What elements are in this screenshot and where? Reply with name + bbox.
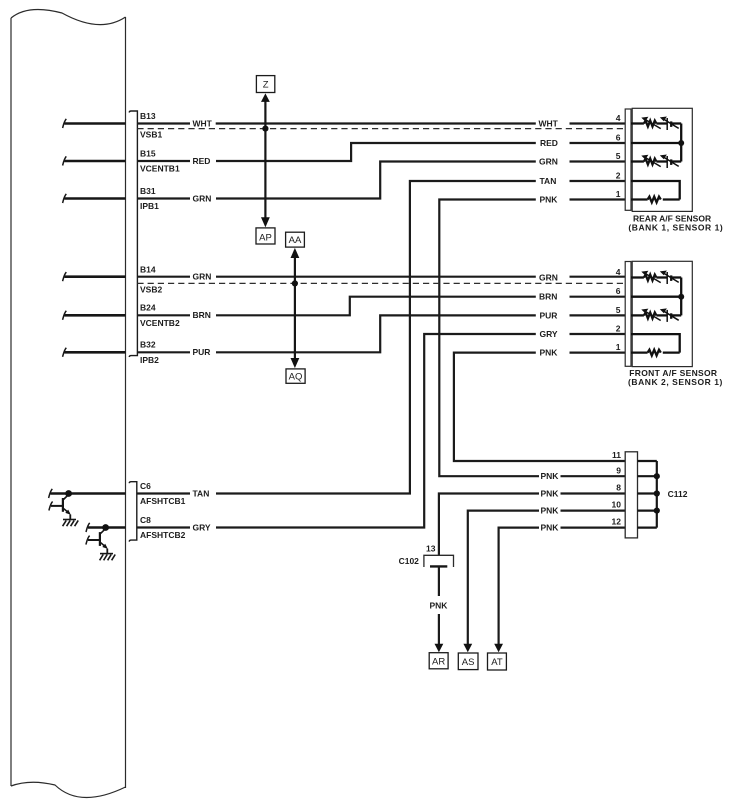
wire PNK (C112 pin 10 to AS) (468, 511, 625, 646)
svg-text:5: 5 (616, 305, 621, 315)
sensor 1 heater (631, 181, 680, 202)
stub B24 (65, 314, 126, 317)
svg-text:(BANK 1, SENSOR 1): (BANK 1, SENSOR 1) (628, 222, 723, 232)
svg-text:2: 2 (616, 324, 621, 334)
svg-text:TAN: TAN (193, 488, 210, 498)
svg-text:12: 12 (612, 517, 622, 527)
stub B31 (65, 197, 126, 200)
connector box AS (458, 653, 478, 670)
connector box AT (488, 653, 507, 670)
sensor 1 element pin 4 (631, 117, 681, 131)
sensor 1 pin numbers (616, 113, 621, 199)
sensor 2 element pin 5 (631, 308, 681, 322)
svg-text:(BANK 2, SENSOR 1): (BANK 2, SENSOR 1) (628, 377, 723, 387)
sensor 2 pin 6 wire (631, 296, 681, 298)
svg-text:AS: AS (462, 657, 475, 668)
sensor 2 internal junction dot (678, 294, 684, 300)
svg-text:B31: B31 (140, 186, 156, 196)
Q1 emitter arrowhead (65, 510, 71, 515)
arrowhead into AS (463, 644, 472, 653)
PNK labels at C112 (541, 471, 560, 532)
svg-text:PNK: PNK (430, 600, 449, 610)
svg-text:GRY: GRY (540, 329, 558, 339)
svg-text:AFSHTCB1: AFSHTCB1 (140, 496, 186, 506)
Q1 collector junction dot (65, 490, 72, 497)
svg-text:8: 8 (616, 483, 621, 493)
svg-text:B14: B14 (140, 265, 156, 275)
stub C8 (88, 526, 126, 529)
stub end ticks (49, 119, 90, 532)
svg-text:2: 2 (616, 171, 621, 181)
sensor 2 element bus (680, 278, 682, 316)
svg-text:PUR: PUR (193, 347, 211, 357)
svg-text:VCENTB1: VCENTB1 (140, 164, 180, 174)
Q2 emitter arrowhead (102, 544, 108, 549)
sensor 1 pin 6 wire (631, 142, 681, 144)
wire GRN (B14 VSB2 to sensor 2 pin 4) (137, 276, 625, 278)
svg-text:PNK: PNK (541, 471, 560, 481)
wire PNK (C112 pin 12 to AT) (499, 528, 626, 646)
Q2 collector junction dot (102, 524, 109, 531)
wire PNK (C112 pin 11 to sensor 2 pin 1) (454, 353, 625, 461)
svg-text:PUR: PUR (540, 310, 558, 320)
svg-text:VSB1: VSB1 (140, 130, 162, 140)
sensor 1 internal junction dot (678, 140, 684, 146)
wire WHT (B13 VSB1 to sensor pin 4) (137, 122, 625, 124)
svg-text:10: 10 (612, 500, 622, 510)
svg-text:IPB2: IPB2 (140, 355, 159, 365)
C112 pin numbers (612, 450, 622, 527)
svg-text:5: 5 (616, 151, 621, 161)
sensor U2 FRONT A/F SENSOR box (632, 261, 692, 366)
wire PNK (C102 to AR) (438, 566, 440, 645)
svg-text:B13: B13 (140, 111, 156, 121)
svg-text:RED: RED (540, 138, 558, 148)
wire PUR (B32 IPB2 to sensor 2 pin 5) (137, 315, 625, 352)
connector box AR (429, 653, 448, 669)
svg-text:C8: C8 (140, 515, 151, 525)
wire GRN (B31 IPB1 to sensor pin 5) (137, 162, 625, 199)
C112 joined splice bus (638, 461, 657, 528)
svg-text:1: 1 (616, 342, 621, 352)
connector box Z (256, 76, 274, 93)
stub C6 (51, 492, 126, 495)
junction dot on VSB2 shield (292, 280, 298, 286)
FRONT A/F sensor connector strip (625, 262, 631, 367)
svg-text:GRN: GRN (539, 272, 558, 282)
connector C112 body (625, 452, 637, 538)
sensor U1 REAR A/F SENSOR box (632, 108, 692, 211)
svg-text:GRN: GRN (193, 193, 212, 203)
svg-text:WHT: WHT (193, 118, 213, 128)
sensor 2 pin numbers (616, 267, 621, 352)
svg-text:AA: AA (289, 235, 302, 246)
svg-text:AT: AT (491, 657, 503, 668)
svg-text:AP: AP (259, 233, 272, 244)
wire RED (B15 VCENTB1 to sensor pin 6) (137, 143, 625, 161)
svg-text:PNK: PNK (541, 523, 560, 533)
svg-text:GRN: GRN (193, 272, 212, 282)
junction dot on VSB1 shield (262, 126, 268, 132)
arrowhead into AT (494, 644, 503, 653)
svg-text:1: 1 (616, 189, 621, 199)
wire PNK (C112 pin 9 to sensor 1 pin 1) (439, 200, 625, 477)
shield ground line AA to AQ (291, 248, 300, 368)
shield drain (VSB1) dashed (137, 128, 629, 130)
svg-text:AFSHTCB2: AFSHTCB2 (140, 530, 186, 540)
transistor Q2 (AF heater driver 2) (86, 529, 107, 554)
wire GRY (C8 AFSHTCB2 to sensor 2 pin 2) (137, 334, 625, 528)
svg-text:GRY: GRY (193, 522, 211, 532)
pin bracket C6/C8 (129, 482, 137, 542)
svg-text:PNK: PNK (541, 488, 560, 498)
svg-text:B32: B32 (140, 340, 156, 350)
svg-text:PNK: PNK (540, 194, 559, 204)
wire colour labels (ECM side) (193, 118, 213, 532)
ECM/PCM body outline (torn-edge ribbon) (11, 9, 126, 797)
svg-text:GRN: GRN (539, 156, 558, 166)
connector C102 (inline, pin 13) (424, 555, 454, 567)
shield drain (VSB2) dashed (137, 282, 629, 284)
arrowhead into AR (435, 644, 444, 653)
sensor 2 element pin 4 (631, 271, 681, 285)
svg-text:C112: C112 (668, 489, 688, 499)
connector box AA (286, 232, 305, 247)
wire PNK (C112 pin 8 to C102 pin 13) (439, 494, 625, 556)
svg-text:Z: Z (263, 79, 269, 90)
wire TAN (C6 AFSHTCB1 to sensor 1 pin 2) (137, 181, 625, 494)
svg-text:B24: B24 (140, 303, 156, 313)
wire colour labels (sensor side) (539, 118, 559, 357)
connector box AP (256, 228, 275, 244)
ground (Q1 emitter) (63, 520, 79, 527)
transistor Q1 (AF heater driver 1) (49, 495, 70, 520)
svg-text:6: 6 (616, 286, 621, 296)
svg-text:IPB1: IPB1 (140, 201, 159, 211)
ground (Q2 emitter) (100, 554, 116, 561)
svg-text:AQ: AQ (289, 372, 303, 383)
pin labels ECM bank 1 (140, 111, 186, 540)
splice junction dots (654, 473, 660, 479)
stub B15 (65, 160, 126, 163)
connector box AQ (286, 369, 305, 383)
svg-text:C102: C102 (399, 556, 420, 566)
svg-text:4: 4 (616, 267, 621, 277)
svg-text:13: 13 (426, 544, 436, 554)
svg-text:BRN: BRN (539, 292, 557, 302)
svg-text:WHT: WHT (539, 118, 559, 128)
svg-text:VSB2: VSB2 (140, 284, 162, 294)
svg-text:11: 11 (612, 450, 621, 460)
stub B13 (65, 122, 126, 125)
shield ground line Z to AP (261, 93, 270, 227)
svg-text:VCENTB2: VCENTB2 (140, 318, 180, 328)
svg-text:AR: AR (432, 656, 445, 667)
svg-text:4: 4 (616, 113, 621, 123)
svg-text:PNK: PNK (540, 348, 559, 358)
svg-text:TAN: TAN (540, 176, 557, 186)
sensor 1 element pin 5 (631, 155, 681, 169)
stub B14 (65, 275, 126, 278)
sensor 2 heater (631, 334, 680, 355)
ECM internal stub wires (51, 124, 126, 528)
svg-text:6: 6 (616, 133, 621, 143)
svg-text:C6: C6 (140, 481, 151, 491)
sensor 1 element bus (680, 124, 682, 162)
svg-text:PNK: PNK (541, 506, 560, 516)
REAR A/F sensor connector strip (625, 109, 631, 210)
pin bracket B13-B32 (129, 111, 137, 357)
svg-text:B15: B15 (140, 148, 156, 158)
svg-text:RED: RED (193, 156, 211, 166)
svg-text:BRN: BRN (193, 310, 211, 320)
svg-text:9: 9 (616, 465, 621, 475)
stub B32 (65, 351, 126, 354)
wire BRN (B24 VCENTB2 to sensor 2 pin 6) (137, 297, 625, 316)
